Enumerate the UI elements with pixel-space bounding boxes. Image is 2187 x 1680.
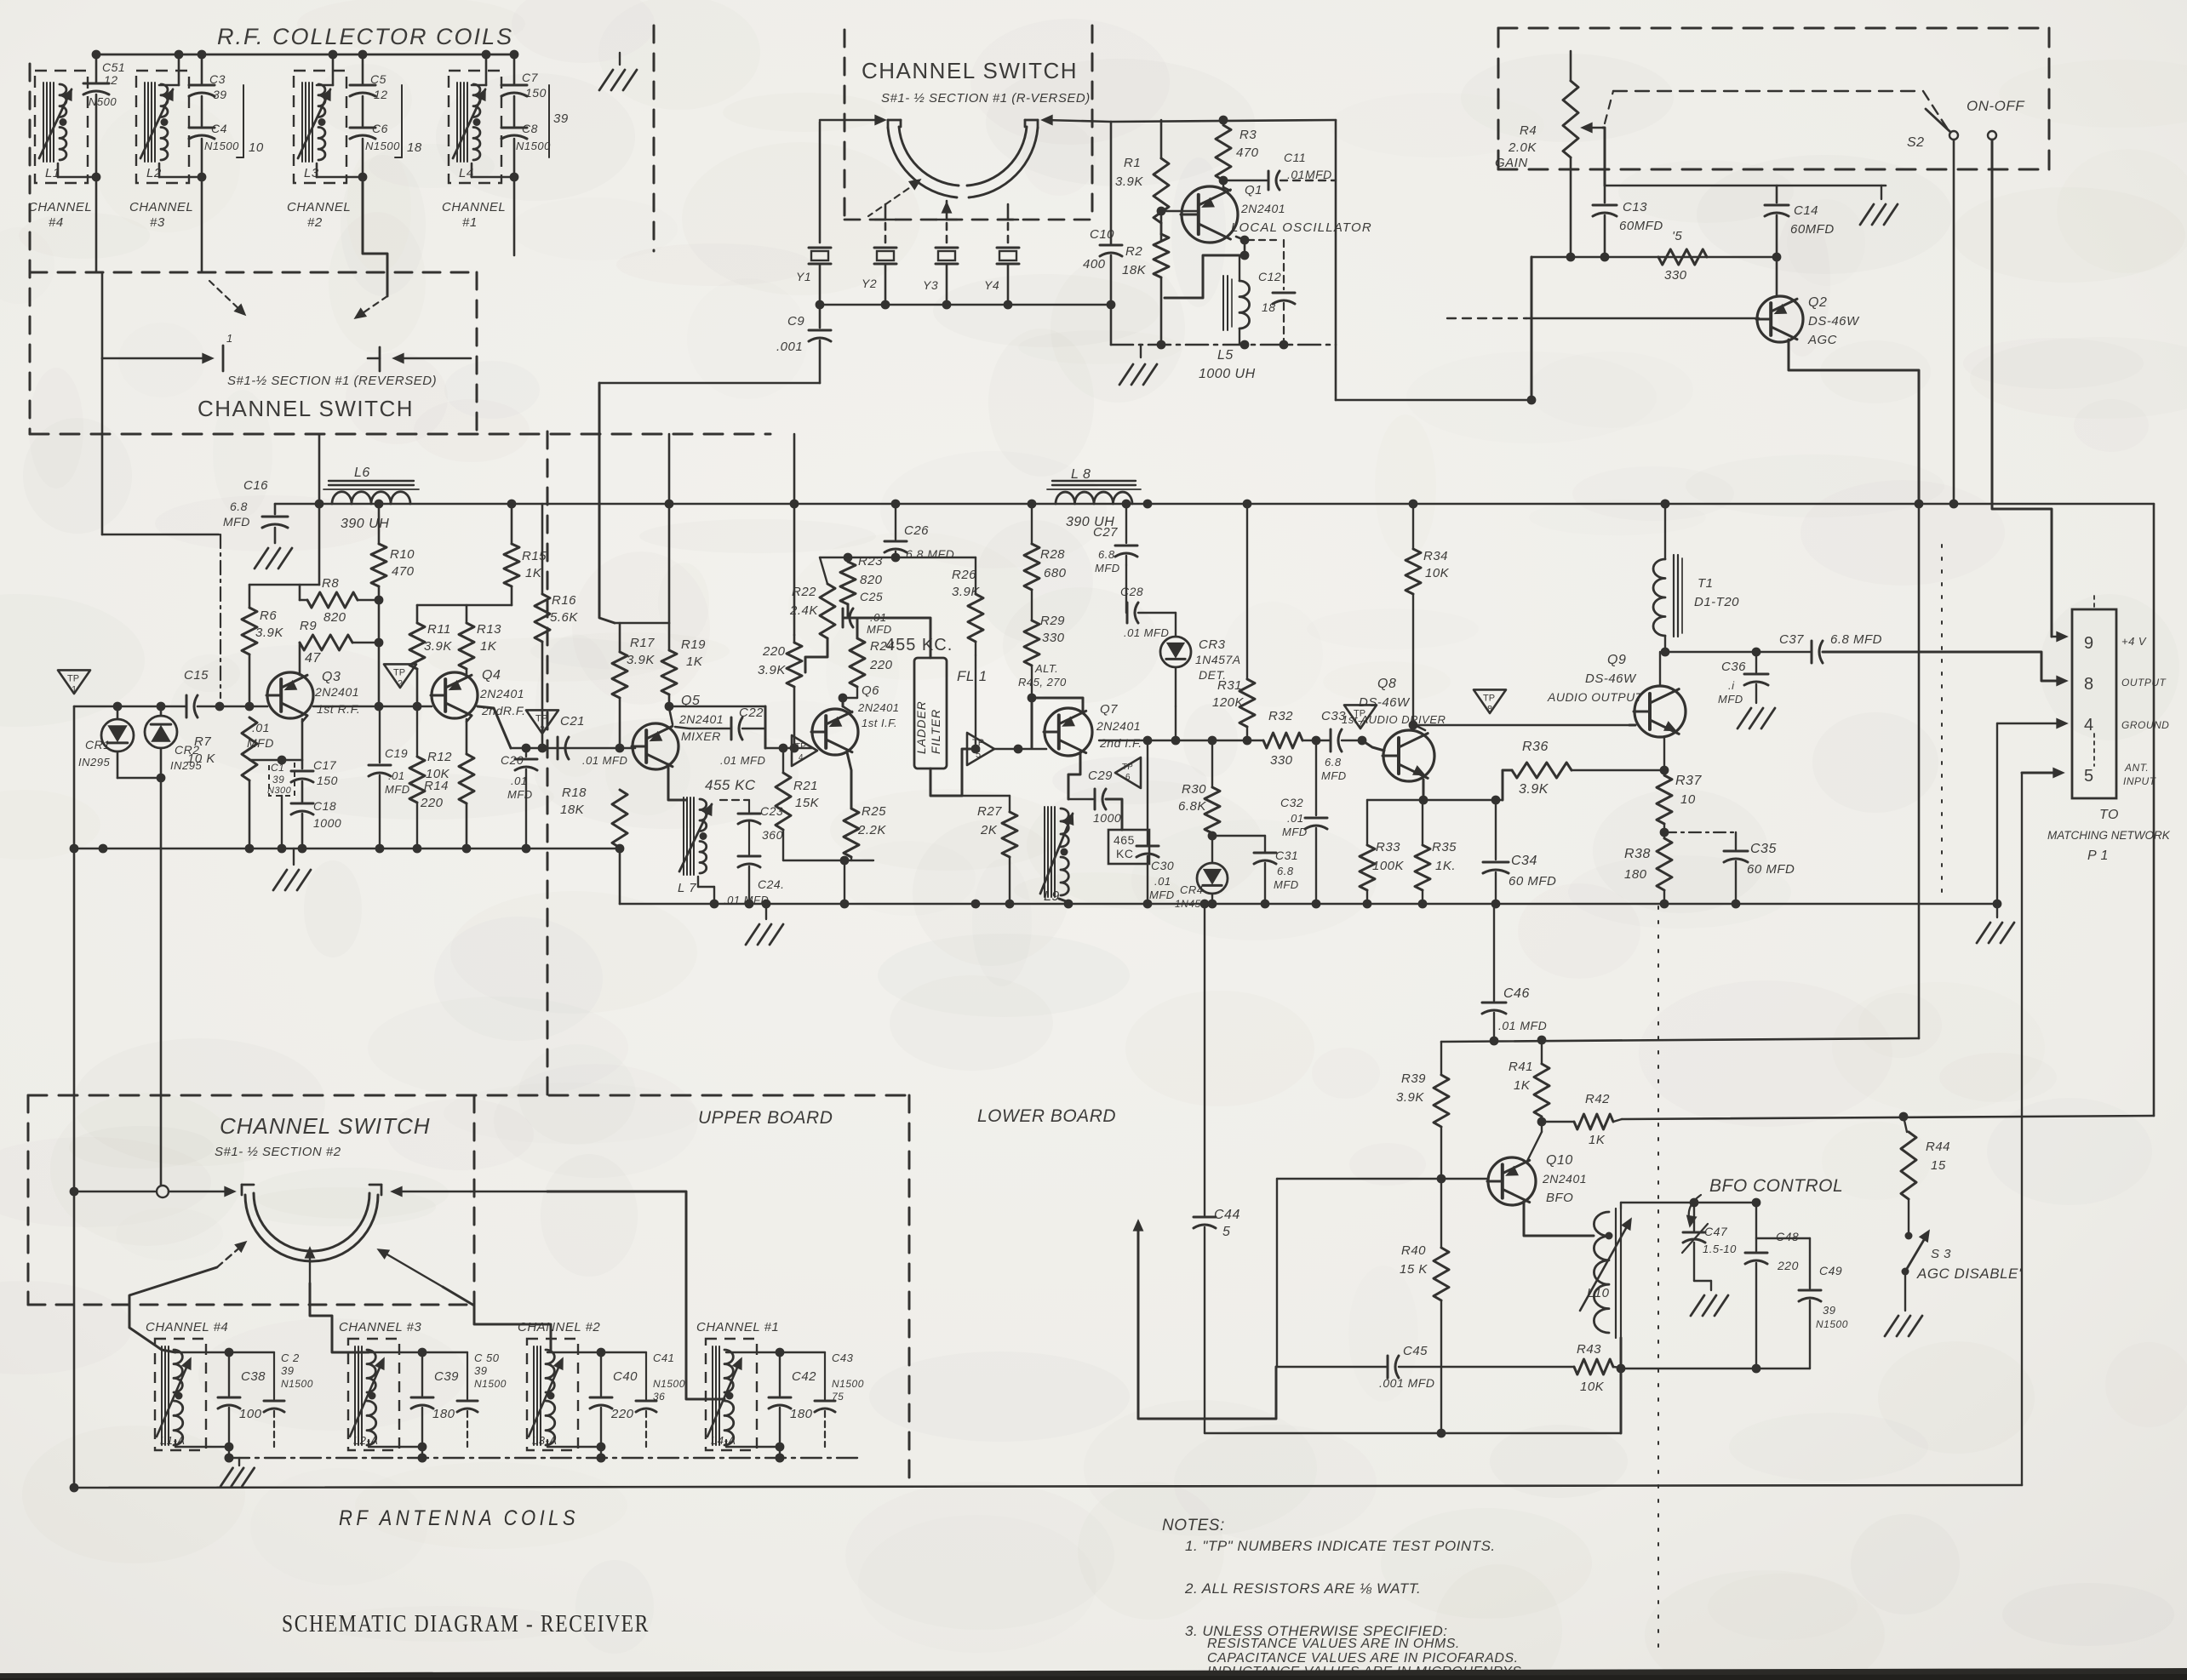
svg-text:C17: C17 xyxy=(313,758,337,772)
resistor R18 18K xyxy=(612,790,627,848)
svg-text:Q8: Q8 xyxy=(1377,677,1396,691)
svg-text:1st R.F.: 1st R.F. xyxy=(317,702,360,716)
svg-text:2N2401: 2N2401 xyxy=(479,687,524,700)
svg-text:CHANNEL: CHANNEL xyxy=(442,200,506,214)
capacitor C50 39 N1500 xyxy=(467,1352,468,1399)
svg-text:15: 15 xyxy=(1931,1158,1946,1173)
svg-text:3.9K: 3.9K xyxy=(952,585,980,599)
svg-text:5: 5 xyxy=(1222,1225,1230,1239)
wire L4-A top node xyxy=(726,1351,780,1353)
wire pin5 feed xyxy=(2022,772,2058,774)
svg-text:R36: R36 xyxy=(1522,740,1549,754)
svg-text:R2: R2 xyxy=(1125,244,1142,259)
potentiometer R4 2.0K GAIN xyxy=(1570,51,1572,81)
wire ch2 top stub xyxy=(332,54,335,85)
svg-text:220: 220 xyxy=(762,644,786,659)
svg-text:C46: C46 xyxy=(1503,986,1530,1001)
svg-text:1K.: 1K. xyxy=(1435,859,1456,873)
dashed board bottom-left y1287 xyxy=(28,1094,909,1097)
wire C28 to CR3 xyxy=(1138,612,1176,614)
svg-text:L4-A: L4-A xyxy=(711,1434,736,1447)
svg-text:MFD: MFD xyxy=(1321,769,1347,782)
diode CR4 1N457A xyxy=(1197,863,1228,894)
crystal Y4 xyxy=(1007,223,1010,243)
resistor R43 10K xyxy=(1399,1366,1574,1368)
svg-text:R10: R10 xyxy=(390,547,415,562)
svg-text:220: 220 xyxy=(420,796,444,810)
wire Q3 emitter xyxy=(302,716,307,722)
svg-text:R17: R17 xyxy=(630,636,655,650)
svg-text:18K: 18K xyxy=(560,803,585,817)
svg-text:CHANNEL #4: CHANNEL #4 xyxy=(146,1320,228,1334)
svg-text:Q9: Q9 xyxy=(1607,653,1626,667)
svg-text:39: 39 xyxy=(1823,1304,1835,1317)
diode CR3 1N457A DET xyxy=(1175,613,1177,637)
capacitor C3 xyxy=(201,54,203,83)
switch contact 1 (section 1) xyxy=(102,357,211,360)
svg-text:180: 180 xyxy=(1624,867,1647,882)
svg-text:C16: C16 xyxy=(243,478,268,493)
wire ch1 down xyxy=(513,177,516,255)
svg-text:465: 465 xyxy=(1114,833,1135,847)
resistor R16 5.6K xyxy=(541,504,544,594)
svg-text:1N457A: 1N457A xyxy=(1195,653,1241,666)
svg-text:1.5-10: 1.5-10 xyxy=(1703,1243,1737,1255)
svg-text:2N2401: 2N2401 xyxy=(1240,202,1285,215)
svg-text:60MFD: 60MFD xyxy=(1790,222,1835,237)
wire output line y766 xyxy=(1665,651,1812,653)
resistor R10 470 xyxy=(378,504,381,544)
svg-text:18: 18 xyxy=(1262,300,1276,314)
svg-text:LADDER: LADDER xyxy=(914,700,928,754)
svg-text:MFD: MFD xyxy=(223,515,250,529)
wire gain feed down xyxy=(1531,257,1533,400)
riser to ch2 (section 2) xyxy=(443,1287,551,1350)
wire mid ground rail xyxy=(620,903,1997,906)
svg-text:3.9K: 3.9K xyxy=(1396,1090,1424,1105)
svg-text:C30: C30 xyxy=(1151,859,1174,872)
capacitor C2 39 N1500 xyxy=(273,1352,275,1399)
svg-text:T1: T1 xyxy=(1698,576,1714,591)
wire oscillator to gain pot xyxy=(1336,399,1531,402)
svg-text:.01: .01 xyxy=(511,774,528,787)
wire oscillator right edge xyxy=(1335,120,1337,345)
svg-text:Q3: Q3 xyxy=(322,670,341,684)
svg-text:C9: C9 xyxy=(787,314,804,329)
dashed crease x2281 xyxy=(1941,545,1943,898)
svg-text:R41: R41 xyxy=(1509,1060,1533,1074)
wire LO injection drop xyxy=(599,383,615,623)
svg-text:220: 220 xyxy=(610,1407,634,1421)
svg-text:R28: R28 xyxy=(1040,547,1065,562)
svg-text:S2: S2 xyxy=(1907,135,1925,150)
svg-text:C12: C12 xyxy=(1258,270,1281,283)
resistor R11 3.9K xyxy=(416,605,419,623)
capacitor C43 N1500 75 xyxy=(824,1352,826,1399)
svg-text:C42: C42 xyxy=(792,1369,816,1384)
wire L1-A top node xyxy=(175,1351,229,1353)
ground (right rail end) xyxy=(1996,904,1998,917)
svg-text:R30: R30 xyxy=(1182,782,1206,797)
svg-text:10K: 10K xyxy=(1580,1380,1605,1394)
svg-text:CHANNEL: CHANNEL xyxy=(287,200,351,214)
svg-text:MFD: MFD xyxy=(385,783,410,796)
inductor L6 390UH xyxy=(332,492,410,504)
svg-text:150: 150 xyxy=(525,86,547,100)
resistor R20 3.9K xyxy=(793,635,796,643)
svg-text:2.2K: 2.2K xyxy=(857,823,886,837)
resistor R32 330 xyxy=(1263,733,1302,748)
resistor R40 15K xyxy=(1440,1179,1442,1248)
svg-text:400: 400 xyxy=(1083,257,1106,271)
resistor R19 1K xyxy=(668,623,671,650)
diode CR1 IN295 xyxy=(117,706,119,719)
svg-text:C28: C28 xyxy=(1120,585,1143,598)
svg-text:1K: 1K xyxy=(1589,1133,1606,1147)
wire R6 top tie xyxy=(249,584,319,586)
wire ch2 coil bottom xyxy=(316,163,318,177)
svg-text:N300: N300 xyxy=(267,786,292,796)
svg-text:L5: L5 xyxy=(1217,348,1234,363)
svg-text:12: 12 xyxy=(374,88,388,101)
svg-text:C40: C40 xyxy=(613,1369,638,1384)
svg-text:C6: C6 xyxy=(372,122,388,135)
resistor R9 47 xyxy=(300,635,352,650)
svg-text:Q10: Q10 xyxy=(1546,1153,1573,1168)
svg-text:S#1-½ SECTION #1 (REVERSED): S#1-½ SECTION #1 (REVERSED) xyxy=(227,374,437,388)
wire Q8 collector link xyxy=(1415,725,1425,730)
wire ch4 down xyxy=(95,177,98,272)
resistor R21 15K xyxy=(782,748,784,773)
svg-text:C38: C38 xyxy=(241,1369,266,1384)
svg-text:.01MFD: .01MFD xyxy=(1287,168,1332,181)
svg-text:CAPACITANCE VALUES ARE IN PICO: CAPACITANCE VALUES ARE IN PICOFARADS. xyxy=(1207,1651,1519,1666)
svg-text:R8: R8 xyxy=(322,576,339,591)
svg-text:10K: 10K xyxy=(426,767,450,781)
svg-text:C32: C32 xyxy=(1280,796,1303,809)
wire Q8 emitter xyxy=(1423,780,1425,800)
wire L10 right top xyxy=(1621,1202,1756,1203)
resistor R2 18K xyxy=(1160,211,1163,234)
dashed box left x992 xyxy=(844,30,846,221)
wire switch feed x933 xyxy=(793,434,796,635)
svg-text:TP: TP xyxy=(535,713,547,723)
switch rotor arrow up (section 2) xyxy=(309,1251,311,1283)
svg-text:36: 36 xyxy=(653,1391,665,1403)
ground (C36) xyxy=(1738,708,1751,729)
svg-text:C26: C26 xyxy=(904,523,929,538)
capacitor C35 60MFD xyxy=(1664,831,1736,833)
svg-text:3: 3 xyxy=(540,724,545,734)
wire L4-A bottom node xyxy=(726,1446,780,1448)
capacitor C1 39 N300 xyxy=(269,760,295,796)
svg-text:4: 4 xyxy=(799,753,804,763)
svg-text:1000 UH: 1000 UH xyxy=(1199,367,1256,381)
capacitor C18 1000 xyxy=(291,803,313,805)
capacitor C51 xyxy=(95,54,98,82)
svg-text:C24.: C24. xyxy=(758,877,785,891)
svg-text:KC: KC xyxy=(1116,847,1133,860)
svg-text:6.8: 6.8 xyxy=(230,500,248,513)
wire to pin 9 xyxy=(2052,636,2064,638)
transistor Q5 mixer xyxy=(633,723,678,769)
transistor Q6 1st IF xyxy=(812,709,858,755)
svg-text:MFD: MFD xyxy=(1718,693,1743,706)
dashed boundary top-left horizontal xyxy=(30,271,477,274)
svg-text:CHANNEL #2: CHANNEL #2 xyxy=(518,1320,600,1334)
wire R27 top tie xyxy=(962,795,1010,797)
dashed box right x1283 xyxy=(1091,26,1094,217)
resistor R41 1K xyxy=(1541,1040,1543,1064)
svg-text:#3: #3 xyxy=(150,215,165,230)
svg-text:39: 39 xyxy=(553,111,569,126)
wire input line left xyxy=(74,706,186,708)
capacitor C7 xyxy=(513,54,516,83)
svg-text:C36: C36 xyxy=(1721,660,1746,674)
svg-text:N1500: N1500 xyxy=(1816,1318,1848,1330)
inductor L5 1000UH xyxy=(1222,276,1224,330)
resistor R6 3.9K xyxy=(249,585,251,608)
svg-text:C7: C7 xyxy=(522,71,539,84)
svg-text:R22: R22 xyxy=(792,585,816,599)
wire left long vertical xyxy=(73,706,76,1488)
svg-text:C39: C39 xyxy=(434,1369,459,1384)
svg-text:P 1: P 1 xyxy=(2087,849,2109,863)
svg-text:C29: C29 xyxy=(1088,769,1113,783)
wire Q2 emitter xyxy=(1789,340,1919,502)
resistor R30 6.8K xyxy=(1211,740,1213,787)
svg-text:2.4K: 2.4K xyxy=(789,603,818,618)
resistor R14 220 xyxy=(459,754,474,803)
svg-text:2K: 2K xyxy=(980,823,998,837)
svg-text:TP: TP xyxy=(1483,693,1495,703)
dash-dot bottom tie row xyxy=(229,1457,860,1459)
resistor R28 680 xyxy=(1031,504,1033,544)
svg-text:2N2401: 2N2401 xyxy=(678,712,724,726)
svg-text:330: 330 xyxy=(1042,631,1065,645)
capacitor C39 180 xyxy=(421,1352,423,1396)
coil L3 (channel box) xyxy=(294,71,346,183)
capacitor C27 6.8MFD xyxy=(1125,504,1127,543)
wire C48/C49 bottom row xyxy=(1621,1368,1810,1369)
svg-text:.01: .01 xyxy=(1154,875,1171,888)
resistor R15 1K xyxy=(511,504,513,544)
svg-text:Q1: Q1 xyxy=(1245,183,1262,197)
wire gain top rail xyxy=(1605,185,1886,187)
wire Q6 collector xyxy=(843,706,852,712)
svg-text:C 50: C 50 xyxy=(474,1351,500,1364)
transistor Q10 BFO xyxy=(1488,1157,1536,1205)
capacitor C4 xyxy=(201,96,203,126)
wire left drop x120 xyxy=(101,272,104,358)
wire Q9 base xyxy=(1629,724,1635,727)
svg-text:1K: 1K xyxy=(686,654,703,669)
svg-text:OUTPUT: OUTPUT xyxy=(2121,677,2167,689)
wire bias row y711 xyxy=(417,604,512,607)
transistor Q1 local oscillator xyxy=(1182,186,1238,243)
svg-text:NOTES:: NOTES: xyxy=(1162,1517,1225,1534)
svg-text:R11: R11 xyxy=(427,622,451,637)
svg-text:C22: C22 xyxy=(739,706,764,720)
resistor R35 1K xyxy=(1422,800,1423,845)
wire C25 to FL1 xyxy=(857,618,930,658)
svg-text:60MFD: 60MFD xyxy=(1619,219,1663,233)
test point TP6 xyxy=(1115,757,1141,788)
svg-text:D1-T20: D1-T20 xyxy=(1694,595,1739,609)
wire node row y302 xyxy=(1531,256,1777,259)
capacitor C24 .01MFD xyxy=(738,855,760,858)
svg-text:1000: 1000 xyxy=(1093,811,1121,825)
transformer T1 D1-T20 xyxy=(1673,555,1675,637)
dashed boundary top-left vertical right xyxy=(476,272,478,434)
switch rotor arrow NW (section 2) xyxy=(381,1251,443,1287)
resistor R13 1K xyxy=(466,605,468,623)
svg-text:60 MFD: 60 MFD xyxy=(1747,862,1795,877)
wire Q7 collector xyxy=(1032,698,1083,713)
wire ch4 coil bottom xyxy=(57,163,60,177)
wire L7 bottom xyxy=(697,877,699,887)
svg-text:39: 39 xyxy=(213,88,227,101)
capacitor C5 xyxy=(362,54,364,83)
svg-text:C4: C4 xyxy=(211,122,227,135)
svg-text:FL 1: FL 1 xyxy=(957,668,988,684)
wire L1-A bottom node xyxy=(175,1446,229,1448)
wire C49 top tie xyxy=(1756,1237,1810,1239)
coil L7 455KC xyxy=(683,797,684,875)
svg-text:1. "TP" NUMBERS INDICATE TEST: 1. "TP" NUMBERS INDICATE TEST POINTS. xyxy=(1185,1538,1496,1554)
svg-text:1: 1 xyxy=(226,332,233,345)
svg-text:C25: C25 xyxy=(860,590,883,603)
wire crystal bus xyxy=(820,304,1111,306)
ground (mid rail) xyxy=(765,904,767,919)
wire C37 to pin 8 xyxy=(1823,652,2064,681)
svg-text:4: 4 xyxy=(2084,716,2094,734)
svg-text:CHANNEL: CHANNEL xyxy=(129,200,193,214)
svg-text:C49: C49 xyxy=(1819,1264,1842,1277)
ground (C16) xyxy=(255,548,268,569)
svg-text:R39: R39 xyxy=(1401,1071,1426,1086)
svg-text:C18: C18 xyxy=(313,799,336,813)
wire Q1 collector node xyxy=(1219,176,1228,186)
svg-text:R27: R27 xyxy=(977,804,1002,819)
svg-text:R23: R23 xyxy=(858,554,883,569)
wire C33 to Q8 xyxy=(1342,740,1362,741)
svg-text:R35: R35 xyxy=(1432,840,1457,854)
svg-text:220: 220 xyxy=(1777,1259,1799,1272)
svg-text:C11: C11 xyxy=(1284,151,1306,164)
svg-text:5.6K: 5.6K xyxy=(550,610,578,625)
wire right rail drop x2530 xyxy=(2153,504,2156,1116)
test point TP8 xyxy=(1474,689,1506,713)
switch wafer arc (section 1) xyxy=(888,128,957,197)
wire arc left feed xyxy=(820,119,882,122)
svg-text:L2-A: L2-A xyxy=(353,1434,378,1447)
wire Q3 emitter tie xyxy=(249,759,302,761)
dashed crease x1948 xyxy=(1657,906,1659,1651)
svg-text:60 MFD: 60 MFD xyxy=(1509,874,1556,889)
resistor R3 470 xyxy=(1216,125,1231,180)
svg-text:CR1: CR1 xyxy=(85,738,111,751)
wire bias row y732 xyxy=(615,622,669,625)
svg-text:C34: C34 xyxy=(1511,854,1537,868)
capacitor C48 220 xyxy=(1755,1203,1757,1251)
svg-text:IN295: IN295 xyxy=(78,756,110,769)
wire L3-A top node xyxy=(547,1351,601,1353)
svg-text:1K: 1K xyxy=(480,639,497,654)
svg-text:MATCHING NETWORK: MATCHING NETWORK xyxy=(2047,829,2171,842)
wire Q10 emitter xyxy=(1524,1202,1594,1236)
svg-text:R9: R9 xyxy=(300,619,317,633)
resistor R8 820 xyxy=(307,592,358,608)
svg-text:Q6: Q6 xyxy=(862,683,879,698)
svg-text:N1500: N1500 xyxy=(832,1378,864,1390)
filter FL1 ladder filter xyxy=(914,658,947,769)
wire Q4 to C20 node xyxy=(478,706,511,748)
svg-text:R4: R4 xyxy=(1520,123,1537,138)
capacitor C11 .01MFD xyxy=(1223,180,1267,182)
svg-text:.01 MFD: .01 MFD xyxy=(1124,626,1169,639)
svg-text:2N2401: 2N2401 xyxy=(857,701,900,714)
wire ch2 down xyxy=(363,177,387,296)
svg-text:220: 220 xyxy=(869,658,893,672)
capacitor C47 1.5-10 variable xyxy=(1693,1203,1695,1231)
connector P1 box xyxy=(2072,609,2116,798)
switch rotor arrow A (section 1) xyxy=(209,281,243,313)
wire R26 bottom xyxy=(975,655,976,749)
svg-text:6: 6 xyxy=(1125,773,1131,782)
crystal Y1 xyxy=(819,122,822,243)
wire emitter row xyxy=(1367,799,1503,801)
svg-text:.01: .01 xyxy=(1287,812,1304,825)
wire Q5 emitter to L7 xyxy=(668,764,686,800)
test point TP4 xyxy=(792,735,817,766)
wire Q5 collector link xyxy=(669,708,673,724)
coil L2 (channel box) xyxy=(136,71,189,183)
capacitor C49 39 N1500 xyxy=(1809,1238,1811,1289)
wire CR2 drop x189 xyxy=(160,778,163,1185)
wire R21-R25 tie xyxy=(783,860,873,861)
wire left loop x1500 xyxy=(1276,1179,1278,1367)
svg-text:1st I.F.: 1st I.F. xyxy=(862,717,897,729)
svg-text:820: 820 xyxy=(860,573,883,587)
wire ch3 top stub xyxy=(178,54,180,85)
svg-text:2.0K: 2.0K xyxy=(1508,140,1537,155)
capacitor C28 .01MFD xyxy=(1125,565,1127,613)
resistor R37 10 xyxy=(1663,770,1665,775)
capacitor C44 5 xyxy=(1204,904,1205,1215)
capacitor C15 .01MFD xyxy=(186,695,188,717)
transistor Q8 1st audio driver xyxy=(1383,730,1434,781)
svg-text:R19: R19 xyxy=(681,637,706,652)
wire x120 to board xyxy=(102,534,219,536)
svg-text:10K: 10K xyxy=(1425,566,1450,580)
crystal Y3 xyxy=(946,223,948,243)
wire Q6 emitter xyxy=(847,752,851,809)
capacitor C38 100 xyxy=(228,1352,230,1396)
svg-text:Y3: Y3 xyxy=(923,278,938,292)
coil L4 (channel box) xyxy=(449,71,501,183)
switch S3 AGC DISABLE xyxy=(1905,1232,1913,1240)
capacitor C12 18 xyxy=(1283,240,1285,289)
svg-text:C19: C19 xyxy=(385,746,408,760)
capacitor C14 60MFD xyxy=(1776,186,1778,203)
svg-text:455 KC: 455 KC xyxy=(705,777,756,793)
coil L1 (channel box) xyxy=(35,71,88,183)
wire sub rail y655 xyxy=(820,557,896,558)
wire L3-A bottom node xyxy=(547,1446,601,1448)
svg-text:R12: R12 xyxy=(427,750,452,764)
svg-text:Y4: Y4 xyxy=(984,278,999,292)
